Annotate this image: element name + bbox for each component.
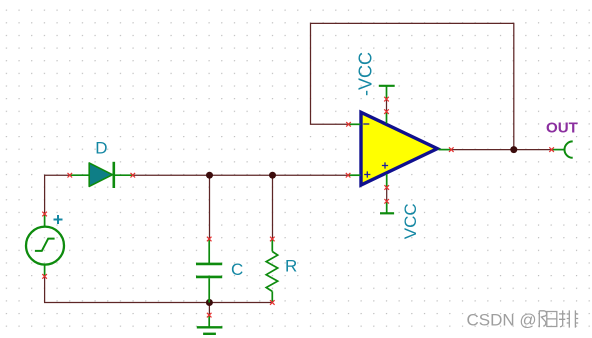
op-amp center plus sign xyxy=(382,162,388,168)
diode D cathode pin xyxy=(114,174,133,176)
watermark glyph yang xyxy=(539,311,557,328)
wire bottom: capacitor bottom to resistor bottom xyxy=(209,302,272,304)
wire bottom: source bottom to capacitor bottom xyxy=(45,276,210,302)
capacitor C top plate xyxy=(196,263,222,266)
-VCC power label xyxy=(356,52,376,96)
diode D label xyxy=(95,138,107,157)
wire top-left: source top to diode anode xyxy=(45,175,70,214)
wire: top rail down to resistor xyxy=(272,175,274,239)
op-amp output pin xyxy=(439,149,452,151)
resistor R zigzag body xyxy=(266,252,278,292)
unconnected pin mark: OUT terminal xyxy=(549,147,554,152)
signal source positive polarity mark xyxy=(54,215,63,224)
capacitor C label xyxy=(231,260,243,279)
top power terminal bar xyxy=(379,85,395,87)
resistor R bottom pin xyxy=(271,291,273,302)
unconnected pin mark: resistor top xyxy=(270,237,275,242)
unconnected pin mark: diode anode xyxy=(68,173,73,178)
op-amp non-inverting input plus sign xyxy=(364,171,370,177)
signal source top pin xyxy=(44,214,46,227)
op-amp top power pin lower segment xyxy=(386,112,388,124)
unconnected pin mark: op-amp non-inverting input xyxy=(346,173,351,178)
unconnected pin mark: source top xyxy=(42,212,47,217)
capacitor C top pin xyxy=(208,239,210,263)
unconnected pin mark: op-amp top power pin xyxy=(384,109,389,114)
resistor R top pin xyxy=(271,239,273,252)
svg-text:R: R xyxy=(285,257,297,276)
diode D anode pin xyxy=(70,174,89,176)
junction node at output / feedback xyxy=(510,146,517,153)
svg-text:C: C xyxy=(231,260,243,279)
wire: feedback loop output to inverting input xyxy=(311,23,514,149)
op-amp inverting input pin xyxy=(349,123,361,125)
OUT terminal arc symbol xyxy=(565,141,573,157)
unconnected pin mark: resistor bottom xyxy=(270,300,275,305)
wire: op-amp top power pin stub xyxy=(386,99,388,112)
ground symbol bottom bar xyxy=(203,333,216,335)
ground symbol top bar xyxy=(197,326,223,328)
junction node at top rail / resistor xyxy=(269,172,276,179)
signal source waveform symbol xyxy=(35,239,55,251)
wire: op-amp bottom power pin stub xyxy=(386,188,388,202)
capacitor C bottom pin xyxy=(208,278,210,302)
wire: op-amp output to OUT terminal xyxy=(451,149,551,151)
wire: bottom node to ground pin xyxy=(208,303,210,316)
VCC power label xyxy=(401,203,420,239)
unconnected pin mark: diode cathode xyxy=(131,173,136,178)
unconnected pin mark: ground xyxy=(207,313,212,318)
OUT terminal pin xyxy=(552,149,564,151)
unconnected pin mark: bottom power terminal xyxy=(384,199,389,204)
capacitor C bottom plate xyxy=(196,276,222,279)
op-amp inverting input minus sign xyxy=(363,123,369,125)
wire: diode cathode to op-amp non-inverting input xyxy=(133,174,348,176)
bottom power terminal bar xyxy=(380,212,394,214)
unconnected pin mark: source bottom xyxy=(42,274,47,279)
ground symbol pin xyxy=(208,315,210,327)
op-amp non-inverting input pin xyxy=(348,174,360,176)
diode D body triangle xyxy=(89,163,112,186)
junction node at top rail / capacitor xyxy=(206,172,213,179)
wire: top rail down to capacitor xyxy=(209,175,211,239)
op-amp bottom power pin lower segment xyxy=(386,201,388,213)
unconnected pin mark: op-amp inverting input xyxy=(346,122,351,127)
svg-text:CSDN @: CSDN @ xyxy=(467,310,537,329)
signal source bottom pin xyxy=(44,264,46,276)
diode D cathode bar xyxy=(113,162,116,188)
op-amp U1 body triangle xyxy=(361,112,437,185)
op-amp bottom power pin upper segment xyxy=(386,174,388,188)
unconnected pin mark: top power terminal xyxy=(384,97,389,102)
OUT terminal label xyxy=(546,119,579,136)
resistor R label xyxy=(285,257,297,276)
watermark glyph pai xyxy=(559,310,578,327)
svg-text:D: D xyxy=(95,138,107,157)
junction node at bottom rail / ground xyxy=(206,299,213,306)
op-amp top power pin upper segment xyxy=(386,86,388,99)
unconnected pin mark: capacitor top xyxy=(207,237,212,242)
signal source VS circle xyxy=(26,227,64,265)
unconnected pin mark: op-amp output xyxy=(449,147,454,152)
svg-text:OUT: OUT xyxy=(546,119,579,136)
unconnected pin mark: op-amp bottom power pin xyxy=(384,185,389,190)
svg-text:-VCC: -VCC xyxy=(356,52,376,96)
watermark CSDN text xyxy=(467,310,537,329)
svg-text:VCC: VCC xyxy=(401,203,420,239)
